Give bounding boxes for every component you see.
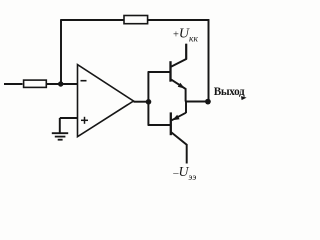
transistor Q1 collector <box>171 44 186 67</box>
resistor R1 (input) <box>24 80 47 87</box>
wire op-amp output <box>134 101 149 103</box>
op-amp minus label <box>81 80 87 82</box>
wire feedback top left <box>60 19 124 21</box>
op-amp U1 <box>78 65 134 137</box>
node C (output node) <box>205 99 211 105</box>
wire feedback vertical <box>60 20 62 84</box>
svg-text:+Uкк: +Uкк <box>173 27 198 45</box>
wire base lead Q2 <box>148 124 170 126</box>
resistor R2 (feedback) <box>124 16 148 24</box>
output direction arrowhead <box>241 96 247 100</box>
svg-text:–Uээ: –Uээ <box>172 164 196 182</box>
node B (base bus junction) <box>146 99 152 105</box>
svg-text:Выход: Выход <box>214 86 245 98</box>
transistor Q2 collector <box>171 132 187 163</box>
wire feedback top right <box>148 19 210 21</box>
wire +Ukk lead <box>185 44 187 59</box>
wire input <box>4 83 23 85</box>
transistor Q2 emitter arrowhead <box>172 115 179 120</box>
transistor Q2 base bar <box>170 112 172 135</box>
wire emitter bus down <box>185 101 187 113</box>
wire non-inverting input <box>60 118 78 133</box>
wire R1 to inverting input <box>46 83 78 85</box>
node A (junction of R1, feedback, op-amp - input) <box>58 81 63 86</box>
transistor Q1 emitter (arrow out, NPN) <box>171 80 185 102</box>
transistor Q2 emitter (arrow in, PNP) <box>172 113 186 121</box>
transistor Q1 base bar <box>169 61 171 81</box>
wire emitter bus to output node <box>185 101 208 103</box>
op-amp plus label <box>81 117 88 124</box>
wire base bus vertical <box>147 72 149 125</box>
wire output vertical <box>208 19 210 101</box>
wire base lead Q1 <box>148 71 170 73</box>
ground <box>52 133 68 140</box>
transistor Q1 emitter arrowhead <box>178 83 185 89</box>
